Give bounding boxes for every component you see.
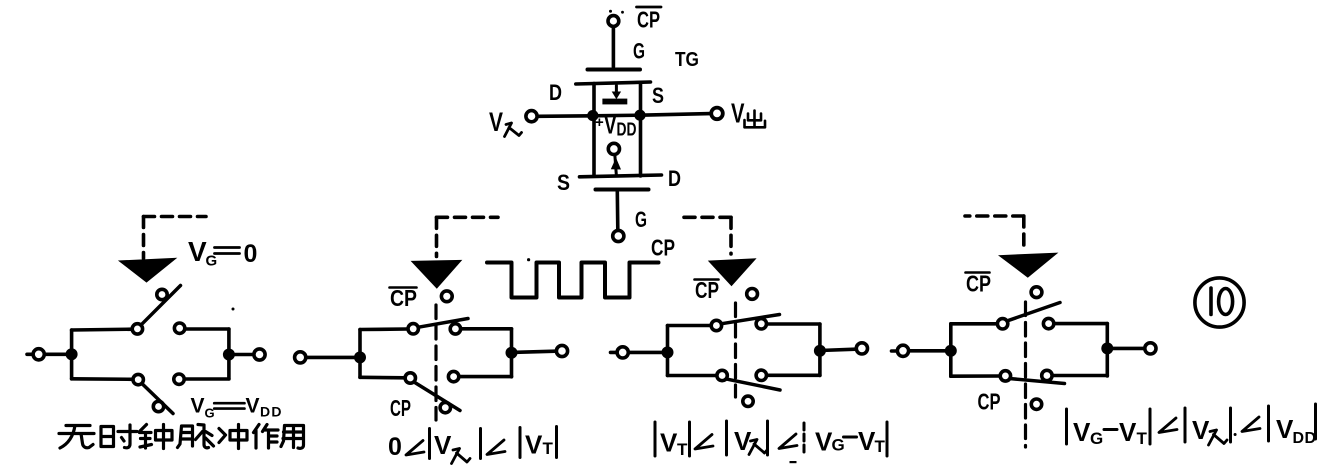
svg-text:T: T	[1137, 429, 1148, 448]
svg-text:0: 0	[244, 240, 258, 268]
switch lever sw1 top	[141, 286, 181, 326]
wire sw2 right vertical	[510, 329, 514, 377]
wire sw4 left	[909, 349, 951, 353]
svg-text:CP: CP	[966, 271, 991, 297]
svg-text:V: V	[434, 430, 452, 460]
svg-text:G: G	[633, 39, 645, 64]
switch lever sw2 top	[419, 319, 469, 328]
wire sw2 top-right branch	[461, 327, 512, 331]
contact sw4 top-left	[997, 319, 1007, 329]
speck	[790, 461, 797, 463]
svg-text:D: D	[668, 166, 681, 191]
char zuo (right part)	[263, 425, 279, 449]
node sw2 right junction	[506, 347, 518, 359]
wire sw3 top-right branch	[767, 322, 820, 326]
terminal sw1 right	[254, 349, 265, 360]
wire sw3 left	[629, 351, 668, 355]
figure number 10 (circled)	[1195, 278, 1244, 327]
wire sw1 left vertical	[70, 330, 74, 379]
formula 4: |VG-VT| < |Vin| < |VDD|	[1065, 409, 1068, 444]
wire sw1 right vertical	[227, 329, 231, 379]
char wu	[59, 426, 94, 449]
char mai (moon radical)	[178, 426, 193, 448]
caption: wu shi zhong mai chong zuo yong	[59, 425, 304, 449]
terminal sw3 right	[856, 343, 867, 354]
contact sw2 linkage tip	[441, 291, 452, 302]
wire dashed elbow sw3 vertical	[729, 217, 733, 254]
wire sw3 right vertical	[818, 324, 822, 375]
wire sw2 left vertical	[358, 330, 362, 378]
terminal sw3 left	[611, 351, 617, 355]
svg-text:0: 0	[388, 433, 402, 461]
speck	[232, 308, 235, 311]
contact sw3 top-left	[711, 320, 721, 330]
transistor Q2 gate bar	[596, 188, 649, 192]
wire sw2 bottom-right branch	[459, 375, 511, 379]
svg-text:CP: CP	[390, 395, 411, 421]
contact sw4 top-right	[1043, 318, 1053, 328]
wire right rail	[639, 83, 643, 177]
wire dashed linkage sw2	[434, 305, 437, 420]
node B (right junction)	[634, 110, 645, 121]
contact sw1 top lever tip	[157, 289, 167, 299]
switch lever sw4 bottom	[1011, 379, 1065, 384]
svg-text:S: S	[557, 170, 570, 195]
wire dashed elbow sw4 vertical	[1022, 216, 1026, 252]
speck	[527, 258, 530, 261]
char mai (right part)	[196, 425, 214, 448]
switch lever sw3 top	[722, 315, 780, 324]
wire CPbar stem	[612, 28, 616, 68]
svg-text:S: S	[652, 83, 664, 108]
char zuo (person radical)	[254, 425, 260, 449]
wire sw1 left	[45, 352, 72, 356]
wire sw4 left vertical	[949, 324, 953, 376]
svg-text:DD: DD	[617, 120, 637, 140]
CP square wave	[487, 263, 659, 298]
arrow sw1	[118, 258, 177, 283]
svg-text:V: V	[1192, 415, 1210, 445]
svg-text:V: V	[815, 427, 833, 457]
formula 3: |VT| < |Vin| < |VG-VT|	[654, 422, 657, 456]
Q1 substrate arrow to VDD	[615, 86, 618, 95]
wire dashed elbow sw3 horizontal	[681, 216, 731, 220]
char chong (middle part)	[230, 425, 247, 449]
transistor Q1 channel bar	[576, 82, 651, 84]
svg-text:V: V	[246, 395, 260, 418]
contact sw2 bottom-right	[448, 371, 458, 381]
terminal Vin	[526, 111, 537, 122]
wire output	[640, 114, 711, 116]
wire sw1 bottom-left branch	[72, 377, 133, 381]
speck	[1234, 433, 1237, 436]
svg-text:G: G	[635, 207, 647, 232]
wire sw1 right	[229, 353, 253, 357]
terminal sw1 left	[27, 352, 32, 356]
wire dashed elbow sw2 vertical	[435, 217, 439, 256]
svg-text:T: T	[677, 440, 688, 459]
wire sw4 right vertical	[1106, 324, 1110, 376]
wire dashed elbow sw2 horizontal	[437, 216, 499, 220]
char chong (ice radical)	[219, 429, 226, 443]
svg-text:V: V	[1073, 417, 1091, 447]
svg-text:V: V	[525, 430, 543, 460]
arrow sw4	[998, 253, 1058, 278]
wire sw1 top-right branch	[185, 327, 229, 331]
char shi	[101, 425, 137, 448]
contact sw4 bottom-left	[1000, 371, 1010, 381]
terminal sw4 left	[892, 349, 898, 353]
terminal sw2 left	[295, 352, 306, 363]
wire sw1 bottom-right branch	[185, 377, 229, 381]
wire sw4 right	[1107, 347, 1144, 351]
wire sw2 right	[512, 351, 556, 352]
node sw3 left junction	[662, 346, 674, 358]
wire mid	[593, 113, 640, 117]
svg-text:V: V	[1276, 414, 1294, 444]
Q2 substrate ring terminal	[608, 143, 619, 154]
contact sw1 bottom-left	[133, 374, 143, 384]
terminal sw2 right	[556, 345, 567, 356]
svg-text:D: D	[549, 80, 562, 105]
svg-text:G: G	[206, 253, 218, 270]
switch lever sw2 bottom	[415, 383, 460, 411]
svg-text:T: T	[543, 439, 554, 458]
wire sw2 left	[307, 356, 361, 360]
contact sw2 top-right	[450, 324, 460, 334]
speck	[621, 11, 624, 14]
transistor Q1 gate bar	[588, 68, 641, 72]
wire dashed elbow sw4 horizontal	[965, 214, 1024, 218]
node sw1 right junction	[223, 349, 235, 361]
wire dashed elbow sw1 vertical	[142, 217, 146, 259]
contact sw2 top-left	[408, 324, 418, 334]
svg-text:V: V	[731, 98, 745, 129]
contact sw1 top-right	[174, 323, 184, 333]
wire sw2 top-left branch	[360, 327, 408, 331]
Q2 substrate arrow	[615, 155, 617, 175]
svg-text:V: V	[191, 395, 205, 418]
node sw4 right junction	[1101, 342, 1113, 354]
wire sw4 top-left branch	[951, 322, 997, 326]
arrow sw3	[708, 258, 757, 286]
node sw3 right junction	[814, 345, 826, 357]
svg-text:CP: CP	[695, 277, 719, 303]
contact sw3 top-right	[756, 319, 766, 329]
wire sw3 left vertical	[666, 326, 670, 376]
char yong	[281, 426, 304, 449]
wire sw4 top-right branch	[1054, 322, 1107, 326]
contact sw1 top-left	[132, 324, 142, 334]
contact sw4 bottom lever tip	[1031, 399, 1041, 409]
wire input	[538, 114, 593, 118]
wire dashed elbow sw1 horizontal	[144, 215, 207, 219]
node sw2 left junction	[354, 351, 366, 363]
char zhong (middle part)	[156, 425, 173, 449]
contact sw3 bottom lever tip	[743, 396, 753, 406]
transistor Q2 channel bar	[580, 175, 662, 177]
contact sw4 linkage tip	[1031, 287, 1042, 298]
speck	[609, 10, 612, 13]
char zhong (metal radical)	[140, 425, 152, 449]
contact sw2 bottom-left	[405, 373, 415, 383]
switch lever sw4 top	[1007, 303, 1060, 321]
wire dashed linkage sw4	[1024, 302, 1027, 447]
wire sw1 top-left branch	[72, 327, 133, 331]
svg-text:T: T	[875, 437, 886, 456]
terminal Vout	[711, 108, 723, 120]
wire sw2 bottom-left branch	[360, 375, 405, 379]
contact sw3 linkage tip	[747, 289, 758, 300]
node sw1 left junction	[66, 348, 78, 360]
svg-text:G: G	[1090, 429, 1103, 448]
terminal sw4 right	[1145, 343, 1156, 354]
wire sw3 bottom-right branch	[767, 373, 820, 377]
svg-text:G: G	[832, 436, 845, 455]
switch lever sw3 bottom	[727, 379, 780, 390]
contact sw1 bottom-right	[174, 374, 184, 384]
svg-text:DD: DD	[260, 404, 283, 420]
wire sw3 top-left branch	[668, 324, 712, 328]
switch lever sw1 bottom	[142, 384, 173, 414]
svg-text:V: V	[660, 428, 678, 458]
wire sw3 right	[820, 349, 856, 350]
contact sw4 bottom-right	[1042, 370, 1052, 380]
contact sw1 bottom lever tip	[153, 401, 163, 411]
terminal CP (bottom)	[613, 230, 624, 241]
arrow sw2	[411, 260, 463, 289]
wire CP stem	[615, 191, 619, 230]
svg-text:V: V	[1119, 417, 1137, 447]
contact sw2 bottom lever tip	[440, 402, 450, 412]
wire dashed linkage sw3	[734, 303, 737, 397]
svg-text:CP: CP	[651, 235, 675, 261]
svg-text:TG: TG	[675, 49, 699, 71]
svg-text:CP: CP	[637, 7, 660, 33]
terminal CPbar (top)	[608, 16, 619, 27]
wire left rail	[592, 84, 596, 177]
svg-text:V: V	[489, 107, 503, 137]
svg-text:G: G	[205, 406, 215, 421]
node sw4 left junction	[945, 345, 957, 357]
node A (left junction)	[587, 110, 598, 121]
svg-text:V: V	[188, 236, 207, 267]
svg-text:V: V	[858, 426, 876, 456]
svg-text:DD: DD	[1293, 430, 1317, 447]
svg-text:CP: CP	[978, 389, 1001, 415]
svg-text:CP: CP	[390, 285, 417, 311]
wire sw4 bottom-left branch	[951, 374, 1000, 378]
wire sw4 bottom-right branch	[1052, 374, 1107, 378]
wire sw3 bottom-left branch	[668, 374, 717, 378]
contact sw3 bottom-right	[756, 370, 766, 380]
contact sw3 bottom-left	[717, 370, 727, 380]
